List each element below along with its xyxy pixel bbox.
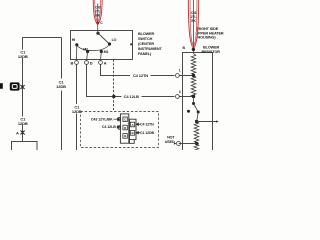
connector pins right (A, B) [130, 122, 134, 135]
svg-text:C4 12LB: C4 12LB [124, 94, 139, 99]
contact leads to terminals [77, 45, 102, 61]
label C1 12DB on left branch (lower) [18, 117, 28, 126]
contact HI [75, 43, 78, 46]
thermal limiter contact top [192, 102, 195, 105]
fuse block icon (black square with white inner) [10, 82, 20, 90]
svg-text:C4 12TN: C4 12TN [133, 73, 148, 78]
connector grommet oval above resistor (red) [188, 0, 198, 49]
svg-text:PANEL): PANEL) [138, 52, 152, 56]
svg-text:12DB: 12DB [18, 54, 28, 59]
thermal limiter arm [194, 104, 199, 112]
thermal limiter: wire down from tap2 [193, 97, 195, 104]
svg-text:C1 12DB: C1 12DB [140, 131, 154, 135]
svg-text:SWITCH: SWITCH [138, 37, 153, 41]
contact M1 [100, 50, 103, 53]
tap wire exiting right with arrowhead [197, 121, 217, 123]
node: tap 3 [195, 120, 198, 123]
svg-text:BLOWER: BLOWER [138, 32, 155, 36]
svg-text:A: A [16, 131, 19, 136]
svg-text:D: D [90, 60, 93, 65]
svg-text:M1: M1 [104, 50, 109, 54]
wire through grommet to resistor terminal B [193, 0, 195, 54]
connector pins left (C, D, B) [123, 117, 127, 138]
contact arc track [77, 44, 110, 51]
wire: blower switch terminal A down then right to resistor (C4 12TN) [101, 65, 131, 76]
label: BLOWER RESISTOR red [202, 46, 221, 54]
wire: branch at x=61 down to bottom edge [61, 38, 63, 79]
not-used terminal circle [177, 142, 181, 146]
svg-text:12DB: 12DB [18, 121, 28, 126]
terminal B of switch [75, 61, 79, 65]
connector body left half [119, 114, 129, 143]
thermal limiter side contact [187, 110, 190, 113]
svg-text:C4 12TN: C4 12TN [140, 123, 154, 127]
wire to not-used terminal [179, 143, 197, 145]
terminal B of resistor (top) [192, 48, 195, 51]
wire: feed from top-left to second branch [23, 37, 62, 39]
svg-text:1: 1 [179, 69, 181, 73]
cut-off icon at left edge [0, 83, 3, 89]
inset: dashed connector view box [81, 112, 159, 148]
resistor element segment 3 [194, 121, 199, 143]
thermal limiter contact bottom [197, 111, 200, 114]
svg-text:12DB: 12DB [56, 84, 66, 89]
contact LO [108, 42, 111, 45]
label C1 12DB on left branch (upper) [18, 50, 28, 59]
splice X on left branch [20, 85, 24, 89]
contact M2 [86, 50, 89, 53]
label NOT USED [165, 136, 176, 144]
label C1 12DB on switch-B wire [72, 105, 82, 114]
connector body right half [130, 119, 137, 143]
wire: left branch x=22.4 down to motor box [22, 38, 24, 50]
wire through grommet into switch common (red) [97, 4, 99, 34]
svg-text:C43 12YL/BK: C43 12YL/BK [91, 118, 113, 122]
terminal circle on wire C4 12LB [176, 95, 180, 99]
svg-text:M2: M2 [83, 48, 88, 52]
label: BLOWER SWITCH (CENTER INSTRUMENT PANEL) [138, 32, 162, 56]
connector grommet oval above switch (red) [93, 0, 102, 25]
blower switch box [71, 31, 133, 60]
wire from limiter to tap 3 [197, 112, 198, 121]
blower motor box (bottom left, cut off) [12, 142, 38, 154]
svg-text:B: B [71, 60, 74, 65]
node: tap 2 [192, 95, 195, 98]
wire: blower switch terminal B down to bottom edge [76, 65, 78, 105]
svg-text:(CENTER: (CENTER [138, 42, 154, 46]
terminal A of switch [99, 61, 103, 65]
resistor element segment 2 [191, 76, 196, 97]
svg-text:3: 3 [179, 90, 181, 94]
terminal circle on wire C4 12TN [176, 74, 180, 78]
svg-text:HOUSING): HOUSING) [198, 36, 217, 40]
svg-text:HI: HI [72, 38, 75, 42]
blower switch wiper (C to LO) [98, 33, 110, 44]
label: (RIGHT SIDE UPPER HEATER HOUSING) red [196, 27, 224, 39]
svg-text:INSTRUMENT: INSTRUMENT [138, 47, 162, 51]
switch position labels [72, 38, 117, 54]
wire: blower switch terminal D down then right to resistor (C4 12LB) [87, 65, 122, 97]
svg-text:RESISTOR: RESISTOR [202, 50, 221, 54]
resistor element segment 4 (to bottom edge) [194, 144, 199, 152]
node: tap 1 [192, 74, 195, 77]
connector X with letter A on left branch [21, 131, 25, 135]
pin letters [124, 118, 134, 139]
grommet tip dot [96, 22, 99, 25]
wiper mark on switch box right edge [130, 43, 132, 45]
resistor element segment 1 [191, 54, 196, 75]
node: junction of dashed line and C4 12LB wire [112, 95, 115, 98]
svg-text:C4 12LB: C4 12LB [102, 125, 116, 129]
blower switch common node C [96, 32, 99, 35]
arrow to not-used terminal [174, 142, 176, 144]
svg-text:LO: LO [112, 38, 117, 42]
label C1 12DB on x=61 branch [56, 80, 66, 89]
blower resistor box [183, 53, 213, 154]
node: tap 4 (not used) [195, 142, 198, 145]
terminal D of switch [85, 61, 89, 65]
wire: dashed connector indicator line from switch to inset [113, 60, 115, 97]
svg-text:A: A [104, 60, 107, 65]
svg-text:USED: USED [165, 140, 175, 144]
